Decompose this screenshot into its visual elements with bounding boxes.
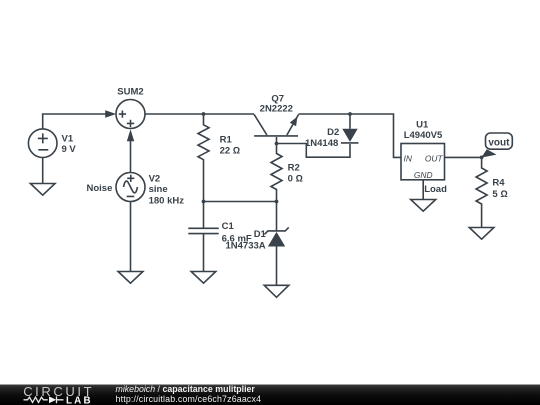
U1 labels	[404, 119, 443, 141]
ground under V1	[30, 184, 55, 196]
svg-text:C1: C1	[222, 221, 235, 232]
svg-text:http://circuitlab.com/ce6ch7z6: http://circuitlab.com/ce6ch7z6aacx4	[116, 394, 262, 404]
node C junction dot (R2/D1)	[275, 200, 279, 204]
zener diode D1	[264, 202, 288, 286]
C1 labels	[222, 221, 252, 244]
wire node A to Q7 collector	[204, 113, 255, 115]
capacitor C1	[188, 202, 218, 272]
wire U1 OUT to node E	[445, 156, 482, 158]
wire V2 to SUM2 with arrowhead	[127, 129, 134, 172]
regulator U1 box	[401, 144, 445, 180]
node B junction dot	[348, 112, 352, 116]
diode D2	[341, 114, 359, 143]
R2 labels	[288, 162, 303, 184]
wire V1 bottom to ground	[42, 158, 44, 184]
svg-text:vout: vout	[488, 137, 510, 148]
svg-text:22 Ω: 22 Ω	[220, 146, 241, 157]
svg-text:R4: R4	[492, 178, 505, 189]
svg-text:0 Ω: 0 Ω	[288, 174, 303, 185]
svg-text:GND: GND	[414, 170, 433, 180]
vout net flag	[481, 133, 512, 158]
svg-text:IN: IN	[404, 154, 413, 164]
node D junction dot (R1/C1)	[202, 200, 206, 204]
D1 labels	[226, 229, 267, 251]
svg-text:180 kHz: 180 kHz	[149, 196, 185, 207]
R1 labels	[220, 134, 241, 156]
ground under C1	[191, 272, 216, 284]
wire U1 GND pin down	[422, 180, 424, 200]
Q7 labels	[260, 94, 293, 115]
svg-text:Noise: Noise	[87, 183, 113, 194]
svg-text:SUM2: SUM2	[117, 86, 143, 97]
svg-text:Load: Load	[424, 184, 447, 195]
svg-text:LAB: LAB	[66, 395, 93, 405]
summer SUM2	[116, 100, 145, 129]
CircuitLab logo resistor-diode glyph	[24, 396, 64, 403]
ground under D1	[264, 285, 289, 297]
node E junction dot (vout)	[480, 156, 484, 160]
svg-text:R1: R1	[220, 134, 233, 145]
D2 labels	[305, 127, 339, 149]
V2 name labels	[87, 174, 185, 207]
voltage source V2 sine	[116, 173, 145, 202]
wire Q7 emitter to node B	[299, 113, 350, 115]
svg-text:1N4733A: 1N4733A	[226, 240, 266, 251]
svg-text:sine: sine	[149, 184, 168, 195]
R4 labels	[492, 178, 507, 200]
svg-text:OUT: OUT	[425, 154, 444, 164]
svg-text:U1: U1	[416, 119, 429, 130]
wire SUM2 output to node A	[145, 113, 204, 115]
resistor R1	[198, 114, 209, 202]
resistor R2	[271, 144, 282, 202]
ground under U1 (Load)	[411, 200, 436, 212]
svg-text:2N2222: 2N2222	[260, 104, 293, 115]
svg-text:D1: D1	[254, 229, 267, 240]
wire between C1 node and R2 bottom node	[204, 201, 277, 203]
transistor Q7	[254, 114, 299, 143]
wire V1 top to SUM2 input with arrowhead	[43, 110, 117, 129]
svg-text:V1: V1	[62, 134, 74, 145]
resistor R4	[476, 157, 487, 227]
svg-text:V2: V2	[149, 174, 161, 185]
svg-text:9 V: 9 V	[62, 144, 77, 155]
svg-text:5 Ω: 5 Ω	[492, 189, 507, 200]
svg-text:L4940V5: L4940V5	[404, 130, 443, 141]
wire base junction to D2 cathode route	[277, 144, 351, 158]
wire node B to U1 IN	[350, 114, 401, 157]
svg-text:1N4148: 1N4148	[305, 138, 338, 149]
CircuitLab logo wordmark	[23, 384, 94, 399]
V1 value labels	[62, 134, 77, 155]
ground under R4	[469, 228, 494, 240]
svg-text:R2: R2	[288, 162, 300, 173]
footer bar	[0, 385, 540, 405]
wire V2 bottom to ground	[130, 202, 132, 272]
voltage source V1	[28, 129, 57, 158]
ground under V2	[118, 272, 143, 284]
node base junction dot	[275, 142, 279, 146]
svg-text:mikeboich / capacitance mulitp: mikeboich / capacitance mulitplier	[116, 384, 256, 394]
svg-text:D2: D2	[327, 127, 339, 138]
node A junction dot	[202, 112, 206, 116]
